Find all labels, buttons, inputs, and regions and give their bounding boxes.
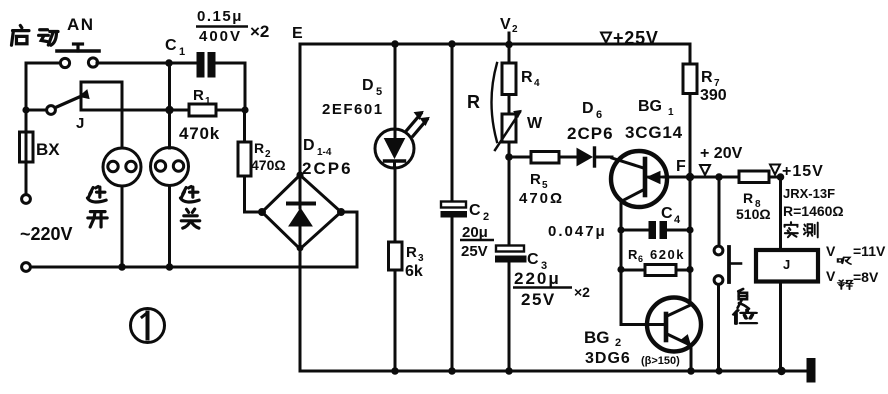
svg-text:BX: BX xyxy=(36,140,60,159)
wire junction down to rail and lamp2 xyxy=(168,63,171,148)
label qidong (start) xyxy=(12,25,29,45)
svg-text:R=1460Ω: R=1460Ω xyxy=(783,203,844,219)
terminal 220V upper xyxy=(22,195,31,204)
svg-text:3DG6: 3DG6 xyxy=(585,350,631,367)
wire R8 to +15V corner xyxy=(769,176,781,179)
svg-text:2: 2 xyxy=(483,211,489,223)
diode D6 xyxy=(577,148,612,166)
svg-text:(β>150): (β>150) xyxy=(641,355,680,367)
svg-text:0.15μ: 0.15μ xyxy=(197,8,243,25)
pushbutton AN xyxy=(57,44,99,68)
svg-text:V: V xyxy=(826,268,836,284)
resistor R2 xyxy=(238,142,251,176)
node relay rail xyxy=(777,367,785,375)
node F xyxy=(686,173,694,181)
relay J xyxy=(756,250,818,282)
svg-text:JRX-13F: JRX-13F xyxy=(783,186,835,201)
svg-text:470k: 470k xyxy=(179,124,220,143)
svg-text:×2: ×2 xyxy=(574,284,590,300)
svg-text:220μ: 220μ xyxy=(514,269,561,288)
resistor R3 xyxy=(389,242,403,270)
svg-text:4: 4 xyxy=(534,78,540,89)
node C3 rail xyxy=(505,367,513,375)
wire lamp2 bottom xyxy=(168,186,171,268)
svg-text:W: W xyxy=(527,115,543,132)
svg-text:R: R xyxy=(743,190,753,206)
wire rail right segment xyxy=(81,109,189,112)
svg-text:2CP6: 2CP6 xyxy=(567,124,614,143)
svg-text:R: R xyxy=(467,92,480,112)
transistor BG1 xyxy=(611,151,667,207)
svg-text:6: 6 xyxy=(638,254,643,264)
svg-text:R: R xyxy=(628,247,638,262)
node reset rail xyxy=(715,367,722,374)
wire R2 top lead xyxy=(243,110,246,142)
svg-text:+ 20V: + 20V xyxy=(700,145,743,162)
pushbutton reset xyxy=(714,177,741,371)
wire R4 to W xyxy=(508,95,511,115)
svg-text:D: D xyxy=(582,100,594,117)
svg-text:25V: 25V xyxy=(521,290,556,309)
svg-text:D: D xyxy=(362,77,374,94)
marker +20V triangle xyxy=(700,165,710,175)
node V2 xyxy=(505,41,513,49)
wire D5 to R3 xyxy=(394,168,397,242)
resistor R6 xyxy=(621,265,690,276)
svg-text:6k: 6k xyxy=(405,263,423,280)
wire C1 right down to R1 right xyxy=(216,63,246,107)
resistor R1 xyxy=(189,104,216,116)
wire AN left to fuse node xyxy=(26,63,61,106)
terminal 220V lower xyxy=(22,263,31,272)
node C1 left junction xyxy=(165,59,173,67)
node R1-R2 junction xyxy=(241,106,248,113)
switch J arm xyxy=(56,94,87,108)
node C4 right xyxy=(686,226,693,233)
wire AN to C1 xyxy=(97,62,196,65)
wire bridge bottom to ground rail xyxy=(299,249,302,371)
wire F down to BG2 collector xyxy=(689,177,692,305)
svg-text:AN: AN xyxy=(67,15,95,34)
node C2 top xyxy=(448,40,456,48)
wire W to R5 junction xyxy=(508,142,511,157)
node fuse-switch junction xyxy=(22,106,29,113)
ground chassis bar xyxy=(807,358,816,383)
svg-text:R: R xyxy=(701,69,713,86)
wire R1 to R2 top xyxy=(216,109,245,112)
svg-text:=11V: =11V xyxy=(853,243,886,259)
marker +15V triangle xyxy=(770,165,780,175)
wire junction to R5 xyxy=(509,156,531,159)
wire rail left segment xyxy=(26,109,47,112)
resistor R7 xyxy=(683,64,697,177)
svg-text:470Ω: 470Ω xyxy=(519,190,564,207)
node +15V xyxy=(777,173,785,181)
label shice (measured) xyxy=(785,222,798,237)
svg-text:V: V xyxy=(500,16,511,33)
wire J contact loop xyxy=(81,82,122,110)
node R6 right xyxy=(686,266,693,273)
node lamp1 rail xyxy=(118,263,126,271)
potentiometer W xyxy=(495,111,521,151)
capacitor C3 xyxy=(495,157,527,371)
svg-text:C: C xyxy=(469,202,481,219)
svg-text:510Ω: 510Ω xyxy=(736,206,771,222)
svg-text:C: C xyxy=(661,205,673,222)
node R6 left xyxy=(617,266,624,273)
brace R grouping R4 and W xyxy=(492,63,498,142)
svg-text:25V: 25V xyxy=(461,243,488,260)
bridge rectifier D1-4 xyxy=(258,171,345,251)
switch J pivot xyxy=(47,106,56,115)
marker +25V triangle xyxy=(601,33,611,43)
node R3 rail xyxy=(391,367,399,375)
node W-R5-C3 junction xyxy=(505,153,513,161)
wire lamp1 top xyxy=(121,110,124,148)
node reset-button top xyxy=(715,173,723,181)
svg-text:J: J xyxy=(76,115,84,132)
svg-text:4: 4 xyxy=(674,214,681,226)
svg-text:BG: BG xyxy=(584,328,610,347)
node lamp2 rail xyxy=(166,263,174,271)
wire BG2 base lead xyxy=(621,323,666,326)
svg-text:1-4: 1-4 xyxy=(317,147,332,158)
svg-text:R: R xyxy=(406,244,417,261)
svg-text:2CP6: 2CP6 xyxy=(302,159,353,178)
wire R2 to bridge left vertex xyxy=(245,176,263,212)
svg-text:~220V: ~220V xyxy=(20,224,73,244)
node lamp2 rail junction xyxy=(165,106,173,114)
wire +15V down to relay xyxy=(779,177,782,250)
capacitor C4 xyxy=(621,221,690,239)
label yan-guan (delay off) xyxy=(180,186,199,202)
svg-text:400V: 400V xyxy=(199,28,242,45)
wire E node vertical xyxy=(299,44,302,175)
capacitor C1 xyxy=(197,52,216,78)
LED D5 xyxy=(375,44,429,168)
svg-text:BG: BG xyxy=(638,98,662,115)
figure number 1 circled xyxy=(131,309,165,343)
resistor R8 xyxy=(739,171,769,183)
wire top rail E to R7 corner xyxy=(300,44,690,64)
svg-text:R: R xyxy=(521,69,533,86)
transistor BG2 xyxy=(647,298,701,352)
label yan-kai (delay on) xyxy=(87,186,106,202)
svg-text:470Ω: 470Ω xyxy=(251,157,286,173)
svg-text:J: J xyxy=(783,257,790,272)
svg-text:5: 5 xyxy=(376,86,382,98)
wire AC bottom rail xyxy=(31,266,358,269)
wire V2 label tick xyxy=(508,33,511,44)
node C4 left xyxy=(617,226,624,233)
wire relay to rail xyxy=(779,282,782,372)
svg-text:R: R xyxy=(254,140,264,156)
svg-text:R: R xyxy=(530,171,541,188)
lamp DELAY-OFF xyxy=(151,148,189,186)
svg-text:3CG14: 3CG14 xyxy=(625,123,683,142)
svg-text:=8V: =8V xyxy=(853,269,879,285)
svg-text:C: C xyxy=(165,37,177,54)
svg-text:2: 2 xyxy=(512,24,518,35)
label fuwei (reset) xyxy=(738,289,749,309)
svg-text:1: 1 xyxy=(668,107,674,118)
capacitor C2 xyxy=(441,44,468,371)
svg-text:6: 6 xyxy=(596,109,602,121)
fuse BX xyxy=(20,110,34,194)
wire BG1 collector down xyxy=(620,202,623,325)
wire R5 to D6 xyxy=(559,156,577,159)
wire V2 to R4 xyxy=(508,44,511,63)
wire bridge right vertex loop xyxy=(341,212,357,267)
svg-text:+15V: +15V xyxy=(782,163,824,180)
wire BG2 emitter to rail xyxy=(690,345,693,371)
svg-text:+25V: +25V xyxy=(613,28,659,48)
svg-text:D: D xyxy=(303,137,315,154)
svg-text:×2: ×2 xyxy=(250,22,269,41)
svg-text:E: E xyxy=(292,25,303,42)
lamp DELAY-ON xyxy=(103,148,141,186)
node C2 rail xyxy=(448,367,456,375)
resistor R5 xyxy=(531,152,559,164)
svg-text:620k: 620k xyxy=(650,247,685,262)
wire lamp1 bottom xyxy=(121,186,124,267)
svg-text:V: V xyxy=(826,243,836,259)
svg-text:R: R xyxy=(193,87,204,104)
svg-text:1: 1 xyxy=(179,46,185,58)
svg-text:F: F xyxy=(676,158,686,175)
wire R3 to rail xyxy=(394,270,397,371)
wire BG1 emitter to F xyxy=(664,176,739,179)
svg-text:1: 1 xyxy=(205,96,211,107)
svg-text:0.047μ: 0.047μ xyxy=(548,223,607,240)
wire DC ground rail xyxy=(300,370,807,373)
svg-text:2EF601: 2EF601 xyxy=(322,101,384,118)
svg-text:390: 390 xyxy=(700,87,727,104)
svg-text:20μ: 20μ xyxy=(462,224,488,241)
node D5 top xyxy=(391,40,399,48)
svg-text:2: 2 xyxy=(615,337,621,349)
resistor R4 xyxy=(502,63,516,95)
svg-text:C: C xyxy=(527,251,539,268)
node BG2 emitter rail xyxy=(687,367,695,375)
